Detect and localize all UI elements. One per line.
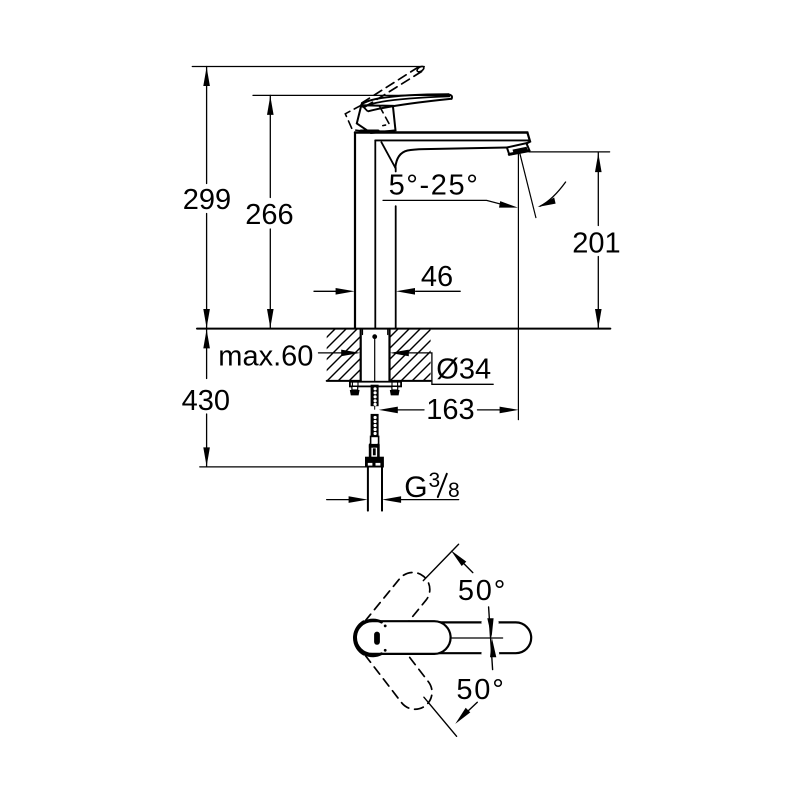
counter hatch left block <box>282 327 414 382</box>
lever blade tip cap <box>448 94 452 98</box>
lower 50deg leg line <box>424 697 457 736</box>
svg-text:163: 163 <box>426 394 474 426</box>
TOP VIEW GROUP <box>354 544 531 736</box>
counter top line <box>197 328 610 330</box>
neck diagonal <box>381 142 395 168</box>
svg-text:201: 201 <box>572 228 620 260</box>
left screw shaft <box>352 386 358 390</box>
svg-text:5°-25°: 5°-25° <box>389 169 480 201</box>
spout end face <box>527 133 530 144</box>
shank hole wall right <box>388 329 390 381</box>
mounting plate <box>350 382 401 387</box>
svg-text:299: 299 <box>183 184 231 216</box>
raised lever dashed edges <box>362 67 419 103</box>
counter hatch right block <box>345 327 477 382</box>
svg-text:Ø34: Ø34 <box>436 354 491 386</box>
right screw shaft <box>392 386 398 390</box>
svg-text:430: 430 <box>182 385 230 417</box>
shank hole wall left <box>360 329 362 381</box>
fixing bolt <box>374 340 376 382</box>
upper 50deg leg line <box>423 544 458 580</box>
COUNTER / MOUNTING GROUP <box>218 327 518 511</box>
SIDE VIEW GROUP <box>182 67 621 467</box>
shank tube notch right <box>387 329 389 335</box>
body inner edge line <box>374 140 376 328</box>
upper 50deg arc arrow <box>464 564 473 573</box>
dimension 163 <box>398 409 425 411</box>
dimension 266 line <box>269 95 271 197</box>
rod break mark <box>374 406 376 409</box>
leader 5-25 <box>383 200 511 206</box>
right screw nut <box>390 390 400 395</box>
dashed swung handle upper <box>365 566 437 643</box>
threaded rod lower segment <box>371 414 379 437</box>
body right edge (broken by text) <box>395 168 397 172</box>
handle ghost dashes inner <box>380 107 390 126</box>
spout underside curve <box>395 148 507 168</box>
leader max.60 <box>319 352 343 354</box>
spout plan outline <box>356 622 531 653</box>
dimension 430 line <box>206 329 208 379</box>
dimension 299 line <box>206 67 208 184</box>
svg-text:G: G <box>404 471 427 504</box>
body ring thick arc <box>355 620 381 656</box>
SWIVEL INDICATION GROUP <box>383 153 566 420</box>
handle plan outline <box>356 621 451 654</box>
svg-text:8: 8 <box>448 479 460 502</box>
extension line hose nut bottom (430 ref) <box>200 466 366 468</box>
left screw nut <box>350 390 360 395</box>
shank tube notch left <box>362 329 364 335</box>
spout centerline <box>452 637 503 639</box>
water outlet reference vertical <box>517 153 519 420</box>
svg-text:3: 3 <box>429 469 441 492</box>
handle body pentagon <box>357 105 396 133</box>
supply hose <box>367 468 369 511</box>
dimension G3/8 <box>327 499 350 501</box>
svg-text:46: 46 <box>421 261 453 293</box>
spout deck top <box>355 131 527 133</box>
46 DIMENSION GROUP <box>314 261 460 295</box>
dimension 46 <box>314 290 336 292</box>
FAUCET BODY GROUP <box>355 133 530 329</box>
counter bottom left <box>327 380 361 382</box>
handle ghost dashes left (raised position) <box>345 105 363 131</box>
faucet body left edge <box>354 133 356 329</box>
lower 50deg arc arrow <box>469 702 478 710</box>
counter bottom right <box>390 380 431 382</box>
svg-text:max.60: max.60 <box>218 341 313 373</box>
HANDLE GROUP <box>345 65 452 133</box>
edge gaps for angle line <box>483 621 497 624</box>
spout tilt line <box>520 153 536 218</box>
handle base seam <box>361 130 394 133</box>
hose nut <box>365 457 384 468</box>
lever blade top edge <box>361 94 448 104</box>
spout deck bottom line <box>375 139 528 141</box>
lever blade root edge <box>361 105 367 111</box>
raised lever tip cap <box>416 65 425 73</box>
aerator (mousseur) <box>507 143 530 154</box>
lever blade bottom edge <box>369 99 452 112</box>
extension line top (299 ref) <box>192 66 424 68</box>
dimension Ø34 leader <box>390 350 409 357</box>
angle vertex line <box>489 607 493 670</box>
svg-text:50°: 50° <box>458 575 507 607</box>
rod plain segment <box>371 436 379 444</box>
lever blade mid crease <box>363 96 450 106</box>
hose connector <box>369 445 380 448</box>
plan dots <box>384 625 387 628</box>
extension line 266 ref <box>253 94 451 96</box>
body outer arc <box>354 621 364 655</box>
svg-text:50°: 50° <box>456 674 505 706</box>
dashed swung handle lower <box>365 634 439 716</box>
extension line 201 top ref <box>529 151 610 153</box>
dimension 201 line <box>597 153 599 226</box>
curved swivel arrow <box>540 182 566 206</box>
threaded rod upper segment <box>371 385 379 407</box>
svg-text:266: 266 <box>245 199 293 231</box>
cartridge mark <box>374 632 380 645</box>
